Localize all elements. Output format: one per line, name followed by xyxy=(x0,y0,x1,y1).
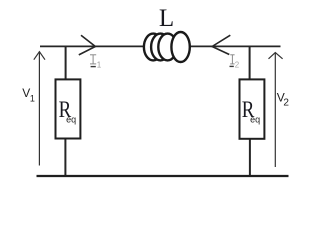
svg-text:eq: eq xyxy=(250,115,260,125)
voltage arrow V1 (up) stem xyxy=(38,52,40,166)
wire bottom xyxy=(37,175,289,177)
current arrow I2 (points left) xyxy=(212,35,230,54)
current arrow I1 (points right) xyxy=(79,35,96,55)
voltage arrow V1 head xyxy=(34,52,45,60)
wire top-right segment xyxy=(190,45,281,47)
inductor L coil loop 2 xyxy=(151,34,170,61)
wire left branch upper xyxy=(65,46,67,80)
svg-text:1: 1 xyxy=(30,94,35,104)
voltage arrow V2 head xyxy=(269,53,283,59)
svg-text:1: 1 xyxy=(97,60,102,69)
svg-text:eq: eq xyxy=(66,114,76,124)
resistor R2 (right) body xyxy=(240,79,265,138)
wire right branch lower xyxy=(249,138,251,176)
resistor R1 (left) body xyxy=(56,79,81,138)
svg-text:2: 2 xyxy=(235,61,240,70)
inductor L coil loop 3 xyxy=(158,34,177,61)
svg-text:L: L xyxy=(159,5,174,32)
inductor L coil loop 1 xyxy=(144,34,163,61)
inductor L coil loop 4 xyxy=(171,32,189,62)
wire top-left segment xyxy=(40,45,144,47)
svg-text:2: 2 xyxy=(283,98,289,109)
current label I1 underline xyxy=(91,66,96,68)
voltage arrow V2 (up) stem xyxy=(274,53,276,168)
wire left branch lower xyxy=(64,138,66,176)
wire right branch upper xyxy=(249,46,251,80)
current label I1 (underlined I) xyxy=(90,55,96,64)
current label I2 (underlined I) xyxy=(230,55,234,64)
current label I2 underline xyxy=(230,65,234,67)
